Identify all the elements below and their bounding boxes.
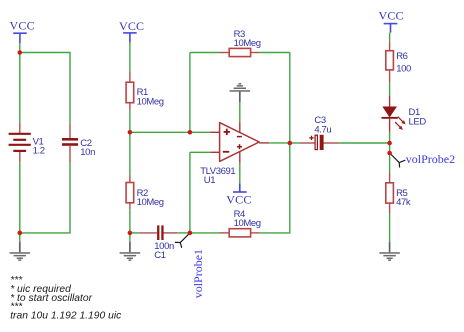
wire: middle VCC down to R1	[129, 43, 131, 72]
wire: R6 to LED	[389, 82, 391, 95]
ground (left)	[10, 242, 31, 261]
wire: ground node to C1 left	[130, 232, 139, 234]
resistor R6	[386, 42, 394, 83]
capacitor C1	[139, 225, 178, 240]
svg-text:volProbe2: volProbe2	[406, 152, 455, 166]
wire: top ground to op-amp top pin	[239, 102, 241, 122]
wire: R4 right up to output node	[260, 143, 290, 233]
wire: R1 bottom to input node	[129, 111, 131, 133]
svg-text:volProbe1: volProbe1	[191, 249, 205, 298]
junction dot: VCC / V1 / C2 node	[18, 50, 23, 55]
wire: C3 to LED column	[339, 142, 389, 144]
power symbol VCC (below op-amp, flipped)	[233, 183, 247, 192]
wire: feedback node up to R3 (left leg)	[189, 53, 191, 133]
svg-text:VCC: VCC	[378, 8, 403, 22]
junction dot: V1 / C2 / ground node	[18, 231, 23, 236]
op-amp output stub	[259, 142, 269, 144]
wire: R3 top left segment	[190, 52, 220, 54]
op-amp bottom power pin stub	[239, 152, 241, 163]
wire: output column vertical (R3 to output node)	[289, 53, 291, 144]
svg-text:* to start oscillator: * to start oscillator	[10, 293, 92, 304]
wire: R4 left segment	[190, 232, 220, 234]
wire: R5 to ground	[389, 214, 391, 243]
svg-text:10n: 10n	[80, 147, 95, 158]
op-amp U1 input stubs	[210, 131, 219, 133]
svg-text:C1: C1	[154, 250, 165, 261]
capacitor C2	[62, 124, 78, 163]
svg-text:10Meg: 10Meg	[234, 38, 261, 49]
wire: op-amp output to node	[269, 142, 290, 144]
wire: C1 right to inverting node	[178, 232, 190, 234]
junction dot: R2 / C1 / ground node	[128, 231, 133, 236]
op-amp inner minus (V- pin mark)	[237, 136, 242, 138]
svg-text:100: 100	[396, 63, 411, 74]
capacitor C3 (polarized)	[300, 135, 339, 150]
ground (top, flipped, op-amp V- pin)	[230, 83, 251, 102]
wire: left top rail to C2 branch	[20, 53, 70, 124]
junction dot: C3 / LED / R5 node	[387, 141, 392, 146]
wire: inverting branch vertical	[189, 152, 191, 233]
ground (right)	[379, 242, 400, 261]
junction dot: R1/R2 node	[128, 130, 133, 135]
svg-text:10Meg: 10Meg	[137, 197, 164, 208]
power symbol VCC (right)	[384, 24, 398, 33]
svg-text:VCC: VCC	[10, 19, 35, 33]
wire: output node to C3	[290, 142, 300, 144]
resistor R4	[220, 229, 260, 237]
wire: inverting input row	[190, 151, 210, 153]
resistor R2	[126, 175, 134, 210]
wire: op-amp bottom pin to VCC symbol	[239, 163, 241, 183]
junction dot: feedback node on plus input row	[188, 130, 193, 135]
wire: node down to R2	[129, 132, 131, 174]
wire: R2 bottom to ground node	[129, 209, 131, 233]
wire: battery V1 minus down to ground node	[19, 162, 21, 242]
svg-text:VCC: VCC	[226, 193, 251, 207]
ground (middle)	[120, 242, 141, 261]
probe volProbe2	[390, 153, 406, 168]
svg-text:U1: U1	[204, 175, 215, 186]
wire: R3 right to output column	[260, 52, 290, 54]
probe volProbe1	[175, 233, 190, 248]
spice directive comment block	[10, 275, 122, 321]
resistor R3	[220, 48, 260, 56]
LED D1	[382, 96, 406, 132]
svg-text:47k: 47k	[396, 197, 411, 208]
wire: left VCC stem down to battery V1	[19, 43, 21, 122]
op-amp minus mark (inverting input)	[223, 151, 229, 153]
wire: LED to R5 (through probe node)	[389, 132, 391, 173]
svg-text:LED: LED	[409, 117, 427, 128]
junction dot: probe2 attachment	[387, 151, 392, 156]
svg-text:VCC: VCC	[119, 19, 144, 33]
op-amp inner plus (V+ pin mark)	[237, 144, 242, 149]
junction dot: output node	[288, 141, 293, 146]
power symbol VCC (middle)	[123, 33, 137, 43]
battery V1	[9, 122, 31, 162]
op-amp plus mark (non-inverting input)	[224, 129, 230, 135]
power symbol VCC (left, net VCC)	[13, 33, 27, 43]
wire: ground node stem	[129, 233, 131, 242]
svg-text:tran 10u 1.192 1.190 uic: tran 10u 1.192 1.190 uic	[10, 310, 122, 321]
junction dot: C1 / R4 / inverting branch node	[188, 231, 193, 236]
svg-text:4.7u: 4.7u	[314, 124, 331, 135]
svg-text:R6: R6	[396, 51, 407, 62]
wire: bottom left rail from ground node to C2 bottom	[20, 163, 70, 233]
op-amp top power pin stub	[239, 122, 241, 132]
svg-text:10Meg: 10Meg	[137, 96, 164, 107]
wire: input node row to op-amp plus input	[130, 131, 210, 133]
wire: right VCC to R6	[389, 33, 391, 42]
resistor R1	[126, 72, 134, 111]
svg-text:1.2: 1.2	[33, 146, 45, 157]
op-amp U1 body	[220, 123, 260, 162]
svg-text:10Meg: 10Meg	[234, 218, 261, 229]
resistor R5	[386, 173, 394, 214]
